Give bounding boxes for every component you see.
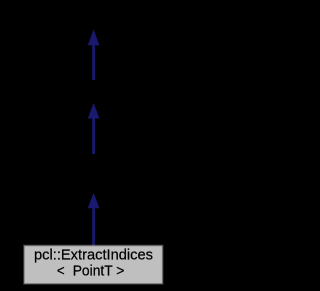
inheritance arrow 1 (top): [88, 29, 100, 80]
svg-text:pcl::ExtractIndices: pcl::ExtractIndices: [34, 248, 153, 264]
node box: pcl::ExtractIndices< PointT >: [23, 245, 164, 285]
inheritance arrow 3 (bottom): [88, 193, 100, 246]
svg-text:PointT >: PointT >: [73, 263, 125, 279]
svg-text:<: <: [57, 263, 65, 279]
node box fill inner: [25, 246, 162, 283]
node box fill mid: [24, 245, 163, 284]
inheritance arrow 2 (middle): [88, 103, 100, 154]
